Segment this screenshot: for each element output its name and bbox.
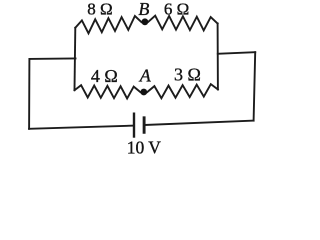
svg-text:10 V: 10 V (127, 137, 162, 157)
svg-text:A: A (139, 66, 152, 86)
resistor 6 ohm (top right) (148, 16, 217, 31)
svg-text:8 Ω: 8 Ω (87, 0, 112, 19)
wire: inner left vertical (joins top and middle branches) (74, 28, 77, 90)
wire: right connector from outer loop to inner vertical (218, 52, 255, 54)
svg-text:6 Ω: 6 Ω (164, 0, 189, 18)
wire: left connector from outer loop to inner vertical (30, 57, 76, 60)
svg-text:4 Ω: 4 Ω (91, 66, 118, 86)
wire: inner right vertical (joins top and middle branches) (217, 24, 219, 90)
wire: outer left vertical (28, 59, 30, 129)
node B junction dot (142, 18, 149, 25)
battery V1 long plate (left, positive) (133, 114, 135, 137)
resistor 4 ohm (middle left) (75, 85, 141, 98)
wire: outer right vertical (254, 52, 256, 120)
svg-text:3 Ω: 3 Ω (174, 65, 201, 85)
svg-text:B: B (138, 0, 149, 19)
resistor 8 ohm (top left) (75, 16, 141, 33)
wire: bottom left segment to battery (29, 126, 134, 129)
node A junction dot (140, 89, 147, 96)
wire: bottom right segment from battery (145, 121, 254, 125)
battery V1 short plate (right, negative) (143, 118, 146, 133)
resistor 3 ohm (middle right) (147, 84, 218, 98)
